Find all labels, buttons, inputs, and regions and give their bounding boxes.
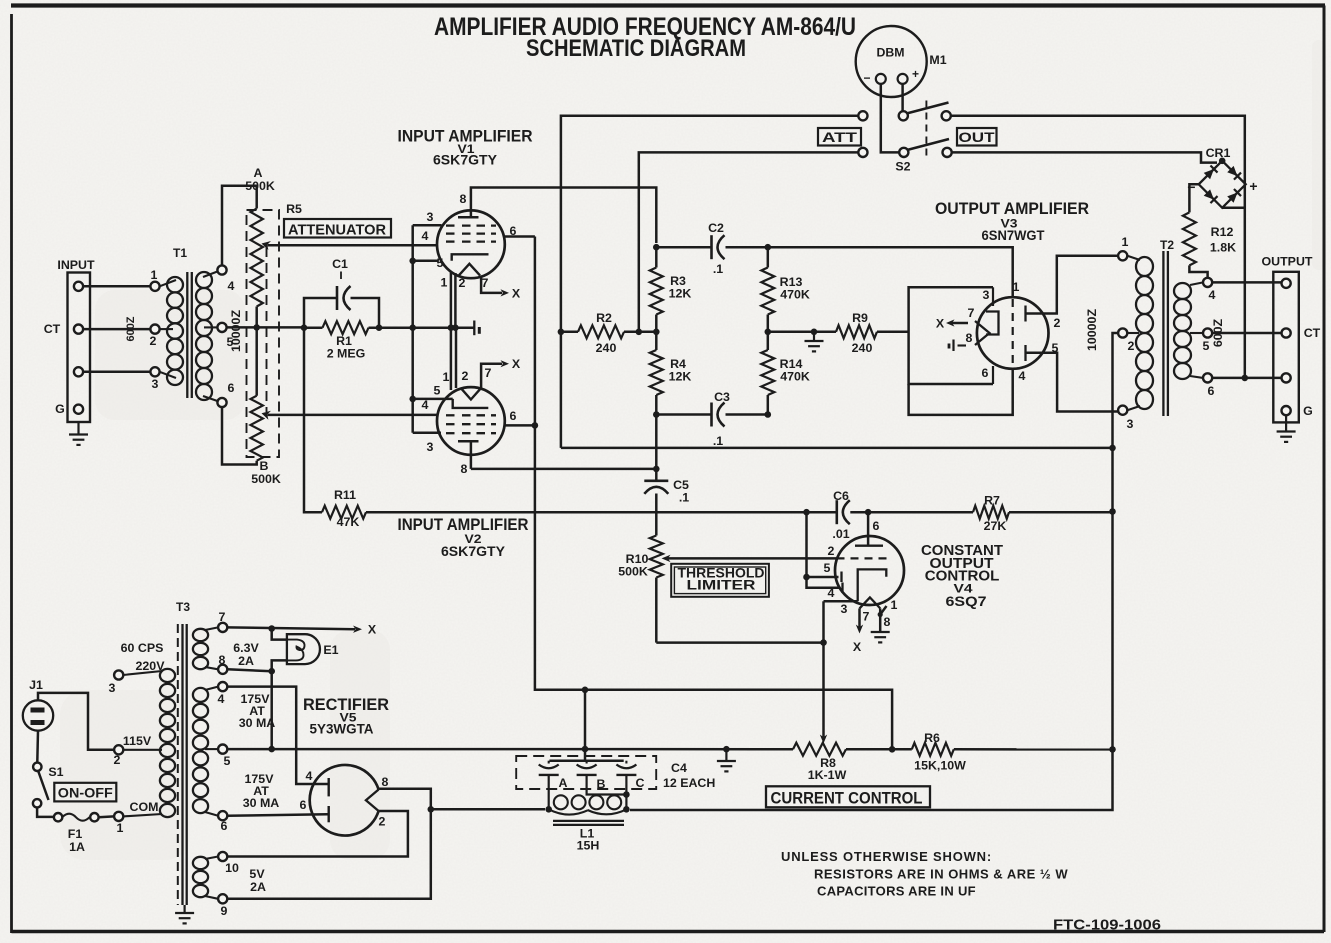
wire J1 to 115V tap [38,693,114,750]
wire C3 node down to C5 [655,415,658,469]
transformer T3 primary winding [160,669,175,682]
node R6 right [1109,746,1116,753]
svg-text:600Z: 600Z [125,316,137,341]
svg-text:12K: 12K [669,287,692,301]
node C2 left [653,244,660,251]
pot A wiper arrow [262,241,272,250]
svg-text:CAPACITORS ARE IN UF: CAPACITORS ARE IN UF [817,884,976,899]
V3 pin2 lead [1026,256,1119,314]
wire T2-6 to output 3 [1212,377,1281,380]
CR1 diode top-left [1203,165,1217,179]
wire riser to T2-2 [1113,333,1119,448]
svg-text:4: 4 [828,586,835,600]
V5 plates [328,778,330,796]
wire T3-6 to V5 plate [227,814,327,815]
svg-text:60 CPS: 60 CPS [121,641,164,655]
svg-text:10: 10 [225,861,239,875]
svg-text:3: 3 [152,377,159,391]
svg-text:10000Z: 10000Z [1085,309,1099,351]
ground below input strip [77,422,79,434]
svg-text:A: A [559,776,568,790]
V4 grid dashed [837,557,889,559]
V3 pin7 X arrow [950,322,968,325]
capacitor C4-C [625,761,627,764]
svg-text:6: 6 [510,409,517,423]
transformer T1 primary winding 600 ohm [150,282,159,291]
svg-text:6SK7GTY: 6SK7GTY [441,544,505,559]
wire pot A wiper to V1 grid [268,244,438,247]
svg-text:5: 5 [824,561,831,575]
CURRENT CONTROL box [766,786,930,807]
S2 lower blade [907,139,949,150]
svg-text:INPUT AMPLIFIER: INPUT AMPLIFIER [398,516,529,534]
capacitor C1 loop [304,298,337,328]
node R14 bottom [765,411,772,418]
T3 HV terminals [218,682,227,691]
svg-text:CT: CT [1304,326,1321,340]
tube V2 6SK7GTY envelope [437,387,505,455]
wire V1 pin3 lead [413,224,442,227]
svg-text:OUT: OUT [959,129,996,145]
T3 5V terminals [218,852,227,861]
node R13 R14 junction [765,329,772,336]
svg-text:6.3V: 6.3V [233,641,259,655]
svg-text:240: 240 [852,341,873,355]
svg-text:4: 4 [228,279,235,293]
svg-text:1K-1W: 1K-1W [808,768,847,782]
T3 ground [184,905,186,913]
svg-text:5Y3WGTA: 5Y3WGTA [310,722,374,737]
V3 pin5 lead [1026,353,1119,412]
svg-text:T3: T3 [176,600,190,614]
switch S2 upper row contacts [858,111,867,120]
wire screen bus down and across to R8-R6 node [535,237,892,750]
svg-text:CURRENT CONTROL: CURRENT CONTROL [771,790,923,808]
V4 pin7 X arrow down [858,608,861,627]
svg-text:7: 7 [863,610,870,624]
svg-text:2: 2 [379,815,386,829]
svg-text:2: 2 [1128,339,1135,353]
wire C2 left [656,246,711,249]
wire S2 att upper to meter riser [561,116,858,448]
svg-text:3: 3 [427,440,434,454]
resistor R7 27K [973,506,1009,519]
svg-text:C6: C6 [833,489,849,503]
V3 center dashed line [1012,299,1014,367]
capacitor C6 .01 [807,511,837,514]
wire T2-4 to output 1 [1212,281,1281,284]
wire riser bottom to L1 [630,749,1113,810]
transformer T1 secondary winding 10000 ohm [217,265,226,274]
V4 heater [860,597,881,608]
svg-text:500K: 500K [245,179,275,193]
svg-text:R5: R5 [286,202,302,216]
node R1 right [376,324,383,331]
V4 pin3 lead [824,600,858,603]
transformer T2 secondary winding [1174,283,1191,299]
resistor R13 470K [767,247,770,267]
svg-text:OUTPUT: OUTPUT [1262,255,1313,269]
border frame bottom [12,930,1325,933]
svg-text:6: 6 [873,519,880,533]
svg-text:3: 3 [427,210,434,224]
wire meter minus to S2 lower pole [881,84,899,152]
svg-text:6: 6 [1208,384,1215,398]
rectifier bridge CR1 [1199,161,1246,208]
wire T3-7 to X arrow [227,627,355,629]
node R7 right [1109,508,1116,515]
svg-text:2A: 2A [238,654,254,668]
node B-plus takeoff [428,806,435,813]
wire riser down to R6 R7 [1111,448,1114,750]
fuse F1 1A [54,813,62,821]
pilot lamp E1 [272,629,287,640]
capacitor C5 .1 [655,469,658,481]
wire C3 left [656,413,711,416]
node pot series junction [253,324,260,331]
svg-text:1: 1 [117,821,124,835]
svg-text:10000Z: 10000Z [229,310,243,352]
CR1 diode bottom-right [1227,189,1241,203]
CR1 diode bottom-left [1203,189,1217,203]
wire pot B wiper to V2 grid [268,414,438,417]
svg-text:ATTENUATOR: ATTENUATOR [288,222,386,239]
node heater junction [582,746,589,753]
potentiometer R5-B 500K [251,396,263,461]
wire T1-6 down to pot B bottom [222,407,257,464]
svg-text:SCHEMATIC DIAGRAM: SCHEMATIC DIAGRAM [526,35,746,62]
CR1 diode top-right [1227,165,1241,179]
wire V1 pin8 plate to C2 node [471,188,656,244]
svg-text:3: 3 [841,602,848,616]
wire input-CT to T1-2 [83,328,150,331]
wire C6 right to R7 [868,511,973,514]
border frame right [1323,6,1326,933]
V3 pin8 shell symbol [958,344,967,346]
OUT box [957,128,997,146]
node R3 R4 junction [653,329,660,336]
svg-text:C4: C4 [671,761,687,775]
svg-text:+: + [1249,178,1257,194]
shell ground symbol at main line end [473,321,475,336]
tube V4 6SQ7 envelope [835,536,904,605]
svg-text:2 MEG: 2 MEG [327,347,366,361]
svg-text:2A: 2A [250,880,266,894]
node R1 left [301,324,308,331]
svg-text:A: A [254,166,263,180]
node V2 pin5 [409,396,416,403]
transformer T3 core [177,624,179,905]
V2 plate [470,441,473,469]
svg-text:6: 6 [228,381,235,395]
svg-text:8: 8 [884,615,891,629]
tube V3 6SN7WGT envelope [977,297,1049,369]
svg-text:S1: S1 [48,765,63,779]
ground at B-minus [725,749,727,760]
ON-OFF box [54,783,116,802]
T3 6.3V terminals [218,623,227,632]
svg-text:6: 6 [982,366,989,380]
resistor R11 47K [322,506,366,519]
svg-text:.1: .1 [713,262,723,276]
svg-text:B: B [260,459,269,473]
node V4 cathode to R8 [820,639,827,646]
svg-text:S2: S2 [895,160,910,174]
svg-text:X: X [512,357,521,371]
capacitor C2 .1 [710,235,713,259]
T3 primary terminals [114,670,123,679]
potentiometer R5-A 500K [251,209,263,307]
resistor R8 1K-1W [793,743,846,756]
svg-text:INPUT: INPUT [57,258,95,272]
svg-text:5: 5 [437,256,444,270]
svg-text:M1: M1 [929,53,946,67]
svg-text:3: 3 [109,681,116,695]
capacitor C3 .1 [710,403,713,427]
svg-text:15H: 15H [577,839,600,853]
svg-text:1.8K: 1.8K [1210,241,1236,255]
svg-text:500K: 500K [251,472,281,486]
svg-text:5V: 5V [249,867,265,881]
svg-text:7: 7 [482,276,489,290]
wire CR1 left vertex to R12 [1189,184,1198,212]
wire R13R14 to ground node [768,331,814,334]
wire T2-5 to output CT [1212,332,1281,335]
V2 heater [461,388,481,399]
svg-text:2: 2 [150,334,157,348]
V3 right grids [1024,306,1026,322]
svg-text:R9: R9 [852,311,868,325]
node V2 plate C3 C5 junction [653,466,660,473]
wire S2 out lower to CR1 [952,152,1217,162]
svg-text:1: 1 [891,598,898,612]
wire B-minus line from T3-5 [227,748,793,751]
V5 cathode notch [366,790,379,812]
svg-text:T1: T1 [173,246,187,260]
wire fuse to COM [99,815,115,818]
R5 dashed gang box [247,210,280,457]
wire pot A bottom to pot B top [255,307,258,396]
svg-text:6: 6 [221,819,228,833]
svg-text:J1: J1 [29,678,43,692]
svg-text:ATT: ATT [822,129,858,145]
svg-text:5: 5 [434,384,441,398]
svg-text:470K: 470K [780,370,810,384]
wire screen bus vertical V1-V2 [411,225,414,433]
border frame top [11,3,1325,7]
transformer T3 secondary 175V winding [193,688,208,702]
svg-text:X: X [368,623,377,637]
wire S1 to fuse [37,808,53,817]
node E1 top [268,625,275,632]
svg-text:RESISTORS ARE IN OHMS & ARE ½: RESISTORS ARE IN OHMS & ARE ½ W [814,867,1068,882]
resistor R10 500K potentiometer [650,536,663,578]
S2 gang dashed line [925,101,927,157]
border frame left [10,14,13,933]
svg-text:C1: C1 [332,257,348,271]
E1 filament [287,640,305,661]
svg-text:12K: 12K [669,370,692,384]
svg-text:1: 1 [443,370,450,384]
tube V5 5Y3WGTA envelope [310,765,379,836]
wire C3 right [726,413,768,416]
wire S2 att lower to R2 node [639,152,859,331]
svg-text:X: X [936,317,945,331]
L1 core [553,820,624,822]
svg-text:47K: 47K [337,515,360,529]
plug J1 [23,700,53,730]
wire R1 node down to R11 [304,328,322,513]
node R2 right att wire [636,329,643,336]
wire V1 pin1 pin2 to main line [450,271,453,328]
svg-text:C2: C2 [708,221,724,235]
svg-text:1: 1 [441,276,448,290]
wire C6 left down to V4 [805,512,808,577]
OUTPUT terminal strip [1273,272,1299,423]
wire V1 pin7 to X [481,275,502,293]
node C6 right [865,509,872,516]
svg-text:12 EACH: 12 EACH [663,776,715,790]
svg-text:+: + [912,67,919,81]
svg-text:OUTPUT AMPLIFIER: OUTPUT AMPLIFIER [935,200,1089,218]
svg-text:4: 4 [218,692,225,706]
V1 plate [470,193,473,217]
wire T1-5 to R1 node [227,326,304,329]
svg-text:DBM: DBM [877,46,905,60]
V4 diode plates [807,576,839,579]
svg-text:8: 8 [966,331,973,345]
svg-text:4: 4 [306,769,313,783]
wire S2 out upper right [951,116,1245,378]
svg-text:C3: C3 [714,390,730,404]
svg-text:F1: F1 [68,827,83,841]
svg-text:FTC-109-1006: FTC-109-1006 [1053,917,1161,934]
svg-text:470K: 470K [780,288,810,302]
node V4 pin5 riser [803,574,810,581]
wire T3-8 to E1 [227,669,271,671]
V4 cathode [858,569,887,601]
wire screen bus drop to C4 bus [584,690,587,761]
svg-text:X: X [512,287,521,301]
svg-text:30 MA: 30 MA [243,796,280,810]
pot B wiper arrow [262,411,272,420]
wire R10 bottom to V4 cathode node [656,641,823,644]
svg-text:240: 240 [596,341,617,355]
node V1 pin5 [409,258,416,265]
svg-text:COM: COM [130,800,159,814]
svg-text:T2: T2 [1160,238,1174,252]
node R8 R6 junction [889,746,896,753]
svg-text:1: 1 [151,268,158,282]
R5 gang dashed line [266,247,268,412]
svg-text:5: 5 [224,754,231,768]
svg-text:G: G [1303,404,1313,418]
wire C2 right to V3 grid [726,247,1013,297]
svg-text:220V: 220V [136,659,166,673]
V3 left plate bracket [986,312,999,335]
wire J1 to S1 [36,731,39,762]
V1 cathode [452,254,489,260]
V1 grid dashes [446,224,458,226]
wire CR1 bottom vertex to out riser [1222,207,1245,210]
wire V2 pin1 pin2 to main line [450,328,453,390]
THRESHOLD LIMITER box [671,564,769,597]
CR1 node top [1219,158,1226,165]
INPUT terminal strip J-board [68,273,91,423]
svg-text:2: 2 [1054,316,1061,330]
capacitor bank C4 dashed box [516,756,656,789]
wire V5 pin2 to 5V winding [227,811,408,857]
node heater at B-minus line [268,746,275,753]
svg-text:7: 7 [219,610,226,624]
node V2 pin6 [532,422,539,429]
node out riser at T2-6 wire [1242,375,1249,382]
wire V2 pin3 lead [413,432,441,435]
svg-text:G: G [55,402,65,416]
transformer T1 core [186,272,188,398]
node R9 ground [811,329,818,336]
switch S1 [33,763,41,771]
svg-text:7: 7 [485,366,492,380]
svg-text:7: 7 [968,306,975,320]
svg-text:2: 2 [828,544,835,558]
ground below output strip [1285,415,1287,431]
svg-text:8: 8 [382,775,389,789]
V2 cathode [453,399,489,408]
svg-text:.01: .01 [832,527,849,541]
svg-text:−: − [863,71,870,85]
wire V2 pin5 lead [413,398,453,401]
wire R12 to T2-4 [1189,265,1207,277]
tube V1 6SK7GTY envelope [437,210,505,278]
node screen bus at main line [409,324,416,331]
node R2 left at meter riser [558,329,565,336]
svg-text:ON-OFF: ON-OFF [58,786,113,801]
resistor R2 240 [561,331,578,334]
svg-text:30 MA: 30 MA [239,716,276,730]
svg-text:5: 5 [1203,339,1210,353]
svg-text:C: C [636,776,645,790]
V3 cathode arrow [975,321,990,345]
svg-text:8: 8 [460,192,467,206]
node C4 ground [723,746,730,753]
svg-text:500K: 500K [618,565,648,579]
S2 upper blade [907,103,949,114]
wire B-plus to L1 [431,808,545,811]
svg-text:LIMITER: LIMITER [687,578,756,593]
svg-text:R6: R6 [924,731,940,745]
svg-text:R2: R2 [596,311,612,325]
V4 plate [867,512,870,546]
wire V1 pin5 lead [413,260,439,263]
svg-text:9: 9 [221,904,228,918]
node R13 top [765,244,772,251]
svg-text:1A: 1A [69,840,85,854]
svg-text:6SN7WGT: 6SN7WGT [982,228,1046,243]
transformer T2 primary terminals [1118,251,1127,260]
transformer T2 primary winding [1127,256,1140,260]
svg-text:R12: R12 [1211,225,1234,239]
R10 wiper arrow [667,557,837,560]
svg-text:.1: .1 [679,491,689,505]
svg-text:4: 4 [1209,288,1216,302]
ATT box [818,128,861,146]
node E1 bottom [268,668,275,675]
wire R11 to C6 node [366,511,807,514]
ground at R9 [813,332,815,341]
resistor R6 15K 10W [912,743,954,756]
node C3 left [653,411,660,418]
